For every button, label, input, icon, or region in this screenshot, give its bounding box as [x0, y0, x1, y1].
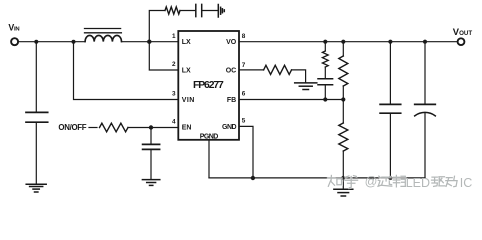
驱 [432, 177, 445, 187]
wire top rail right [240, 41, 458, 43]
IC U1 FP6277 [178, 31, 239, 140]
node input-cap tap [34, 40, 38, 44]
watermark halo [328, 175, 457, 187]
resistor OC R [264, 65, 292, 74]
wire PGND [208, 140, 210, 178]
terminal VOUT [458, 38, 465, 45]
node cout1 on rail [388, 176, 392, 180]
svg-text:LED: LED [406, 176, 430, 190]
wire inductor to LX node [122, 41, 179, 43]
svg-text:FP6277: FP6277 [193, 80, 224, 91]
翔 [393, 175, 405, 187]
resistor divider bottom R2 [342, 100, 344, 124]
svg-text:VIN: VIN [8, 22, 19, 32]
svg-text:3: 3 [172, 91, 176, 98]
svg-text:VO: VO [226, 39, 237, 46]
node gnd-pin on rail [251, 176, 255, 180]
svg-text:5: 5 [242, 118, 246, 125]
svg-text:4: 4 [172, 119, 176, 126]
capacitor EN C [150, 128, 152, 145]
wire bottom rail [209, 177, 425, 179]
terminal VIN [11, 38, 18, 45]
svg-text:LX: LX [182, 67, 191, 74]
svg-text:GND: GND [222, 124, 237, 131]
wire FB line [240, 99, 344, 101]
svg-text:OC: OC [226, 67, 237, 74]
wire pin 7 OC [240, 69, 264, 71]
capacitor output C2 (polarized) [424, 42, 426, 104]
wire top rail left [18, 41, 85, 43]
capacitor snubber C [196, 4, 202, 16]
capacitor output C1 [389, 42, 391, 104]
svg-text:8: 8 [242, 33, 246, 40]
node FB divider [341, 97, 345, 101]
ground OC [295, 83, 317, 90]
动 [446, 176, 457, 186]
svg-text:2: 2 [172, 61, 176, 68]
node divider top [341, 40, 345, 44]
resistor EN R [100, 123, 128, 132]
svg-text:1: 1 [172, 33, 176, 40]
svg-text:VOUT: VOUT [453, 26, 473, 37]
svg-text:EN: EN [182, 125, 192, 132]
ground FB divider [342, 178, 344, 189]
wire GND pin 5 [240, 126, 254, 177]
ground input [26, 184, 46, 192]
乎 [345, 176, 358, 188]
svg-text:FB: FB [227, 97, 236, 104]
svg-text:ON/OFF: ON/OFF [58, 123, 86, 132]
wire ON/OFF stub [89, 127, 97, 129]
svg-text:7: 7 [242, 62, 246, 69]
capacitor feedforward C [324, 67, 326, 79]
inductor L1 [85, 29, 122, 42]
node LX [147, 40, 151, 44]
wire OC R to ground [292, 70, 306, 82]
capacitor CIN input [35, 42, 37, 112]
svg-text:LX: LX [182, 39, 191, 46]
node EN cap tap [149, 125, 153, 129]
node feedforward top [323, 40, 327, 44]
wire snubber R to C [180, 10, 196, 12]
svg-text:6: 6 [242, 91, 246, 98]
ground EN [142, 180, 159, 186]
wire VIN to pin 3 [74, 42, 179, 100]
wire EN R to pin 4 [128, 127, 178, 129]
svg-text:@: @ [365, 175, 378, 189]
wire snubber C to ground [202, 10, 218, 12]
resistor feedforward R [324, 42, 326, 51]
知 [328, 175, 341, 186]
wire LX column up to snubber [149, 11, 165, 42]
node vin-pin tap [72, 40, 76, 44]
node cout1 top [388, 40, 392, 44]
resistor divider top R1 [342, 42, 344, 56]
wire LX down to pin 2 [149, 42, 178, 70]
node cout2 top [423, 40, 427, 44]
node FB feedforward [323, 97, 327, 101]
node divider gnd on rail [341, 176, 345, 180]
resistor snubber R [165, 7, 180, 14]
watermark 知乎 @远翔LED驱动IC [328, 175, 472, 190]
svg-text:IC: IC [460, 176, 473, 190]
ground snubber (sideways) [218, 5, 224, 18]
svg-text:VIN: VIN [182, 97, 195, 104]
svg-text:PGND: PGND [200, 133, 219, 140]
远 [378, 176, 392, 186]
